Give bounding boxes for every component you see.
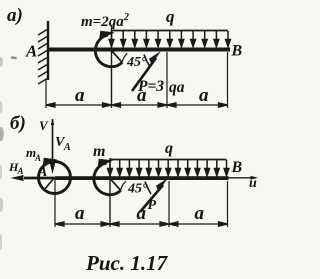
svg-text:2: 2 [123,12,129,23]
distributed load q (top): top bar [112,30,229,32]
svg-text:a: a [75,203,85,224]
u axis arrow [228,176,258,180]
svg-text:q: q [165,140,173,157]
svg-text:A: A [34,153,41,163]
node B (top) [231,43,243,60]
scan smudges left edge [0,56,17,250]
witness line below B (bottom) [227,181,229,227]
svg-text:V: V [39,118,49,133]
witness line below force P (bottom) [168,181,170,227]
reaction moment m_A arc [39,158,71,194]
witness line below wall (top) [45,80,47,108]
caption Ris. 1.17 [85,251,169,275]
vertical reference line at moment (bottom) [109,158,111,227]
wall support hatching [38,21,48,84]
label a) sub-figure [7,5,23,26]
reaction H_A arrow [11,175,56,181]
beam AB (top) [48,48,230,52]
svg-text:а): а) [7,5,23,26]
node A (bottom) [37,165,47,180]
force P arrow (bottom) [140,178,168,212]
45 degree label (top) [126,55,147,70]
svg-text:B: B [231,159,243,176]
beam AB (bottom) [55,176,229,180]
svg-text:45°: 45° [126,55,147,70]
dimension labels a (bottom) [75,203,205,224]
force P=3qa arrow (top) [132,51,161,91]
vertical reference line at moment (top) [111,26,113,108]
moment label m=2qa2 [81,12,129,30]
moment m arc (bottom) [94,159,126,195]
45 degree angle tick (bottom) [145,182,151,195]
witness line below B (top) [227,52,229,108]
svg-text:qa: qa [169,79,185,96]
45 degree label (bottom) [127,182,148,197]
svg-text:Рис. 1.17: Рис. 1.17 [85,251,169,275]
svg-text:б): б) [10,113,26,134]
moment label m (bottom) [93,143,105,160]
svg-text:a: a [75,85,85,106]
svg-text:A: A [17,166,24,176]
label b) sub-figure [10,113,26,134]
distributed load q (bottom): arrows [108,160,229,176]
svg-text:A: A [63,142,71,153]
load label q (top) [166,7,175,26]
dimension line a-a-a (bottom) [55,222,228,226]
force label P (bottom) [148,198,157,213]
svg-text:45°: 45° [127,182,148,197]
reaction label H_A [8,160,24,176]
u axis label [249,176,257,191]
reaction label V_A [55,135,71,153]
svg-text:a: a [137,85,147,106]
45 degree angle tick (top) [144,55,150,68]
svg-text:a: a [137,203,147,224]
v axis / reaction V_A arrow [49,119,56,174]
svg-text:P: P [148,198,157,213]
svg-text:q: q [166,7,175,26]
svg-text:m: m [93,143,105,160]
distributed load q (top): arrows [109,31,230,47]
svg-text:A: A [25,42,37,61]
dimension labels a (top) [75,85,209,106]
v axis label [39,118,49,133]
witness line below force P (top) [166,52,168,108]
svg-text:u: u [249,176,257,191]
reaction moment label m_A [26,145,41,163]
svg-text:B: B [231,43,243,60]
dimension line a-a-a (top) [46,103,228,107]
load label q (bottom) [165,140,173,157]
witness line below A (bottom) [54,178,56,227]
moment m=2qa^2 arc [95,31,127,67]
svg-text:a: a [199,85,209,106]
node B (bottom) [231,159,243,176]
svg-text:a: a [195,203,205,224]
force label P=3qa [138,78,185,96]
node A (top) [25,42,37,61]
distributed load q (bottom): top bar [110,159,227,161]
svg-text:m=2qa: m=2qa [81,14,124,30]
